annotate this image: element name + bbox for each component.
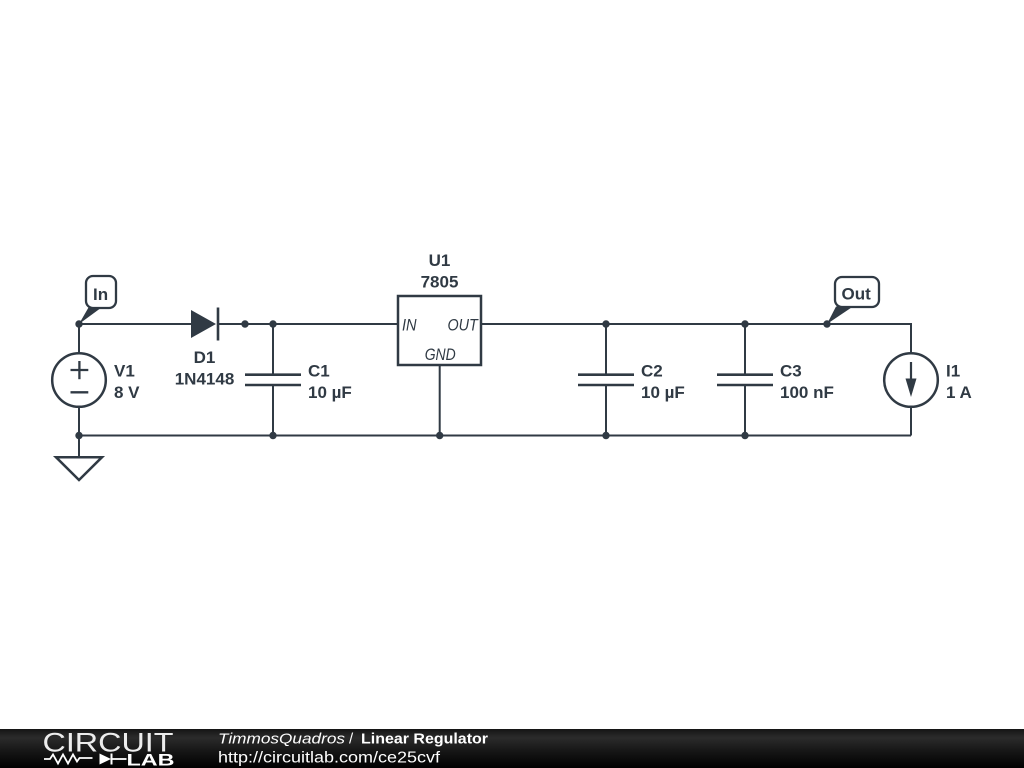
footer bar [0,729,1024,768]
wire top rail U1 to right corner [481,323,911,325]
svg-text:10 µF: 10 µF [308,383,352,402]
svg-text:Linear Regulator: Linear Regulator [361,731,488,748]
svg-text:LAB: LAB [127,752,175,768]
svg-text:D1: D1 [194,348,216,367]
wire V1 top lead [78,324,80,353]
wire right rail down [910,323,912,353]
wire bottom rail [79,435,911,437]
junction dot node In [75,320,82,327]
ground [56,436,102,481]
junction dot bottom C3 [741,432,748,439]
svg-text:In: In [93,285,108,304]
svg-text:IN: IN [402,317,417,335]
capacitor C3 [717,324,773,436]
svg-text:1 A: 1 A [946,383,972,402]
svg-text:I1: I1 [946,362,960,381]
svg-text:7805: 7805 [421,272,459,291]
diode D1 [191,308,218,341]
current source I1 [884,353,938,407]
svg-text:TimmosQuadros: TimmosQuadros [218,731,346,748]
junction dot bottom C1 [269,432,276,439]
svg-text:GND: GND [425,346,456,364]
svg-text:C2: C2 [641,362,663,381]
voltage source V1 [52,353,106,407]
wire V1 bottom lead [78,407,80,436]
svg-text:10 µF: 10 µF [641,383,685,402]
svg-text:V1: V1 [114,362,135,381]
svg-text:U1: U1 [429,251,451,270]
op-amp U1 regulator box [398,296,481,365]
junction dot bottom C2 [602,432,609,439]
junction dot bottom V1 [75,432,82,439]
junction dot C1 top [269,320,276,327]
node In callout box [86,276,116,308]
junction dot C2 top [602,320,609,327]
svg-text:100 nF: 100 nF [780,383,834,402]
svg-text:1N4148: 1N4148 [175,370,235,389]
wire U1 GND lead [439,365,441,436]
wire top rail diode to U1 [218,323,398,325]
current source I1 arrowhead [906,379,917,398]
svg-text:Out: Out [842,285,872,304]
svg-text:OUT: OUT [448,317,480,335]
node In callout tail [79,308,102,325]
junction dot bottom GND pin [436,432,443,439]
node Out callout box [835,277,879,307]
svg-text:8 V: 8 V [114,383,140,402]
junction dot node Out [823,320,830,327]
svg-text:C3: C3 [780,362,802,381]
junction dot diode cathode [241,320,248,327]
CircuitLab logo squiggle diode [100,754,112,765]
junction dot C3 top [741,320,748,327]
CircuitLab logo squiggle resistor [44,755,93,764]
svg-text:http://circuitlab.com/ce25cvf: http://circuitlab.com/ce25cvf [218,750,441,767]
svg-text:C1: C1 [308,362,330,381]
capacitor C1 [245,324,301,436]
wire I1 bottom lead [910,407,912,436]
node Out callout tail [827,307,853,325]
capacitor C2 [578,324,634,436]
wire top rail left segment [79,323,192,325]
